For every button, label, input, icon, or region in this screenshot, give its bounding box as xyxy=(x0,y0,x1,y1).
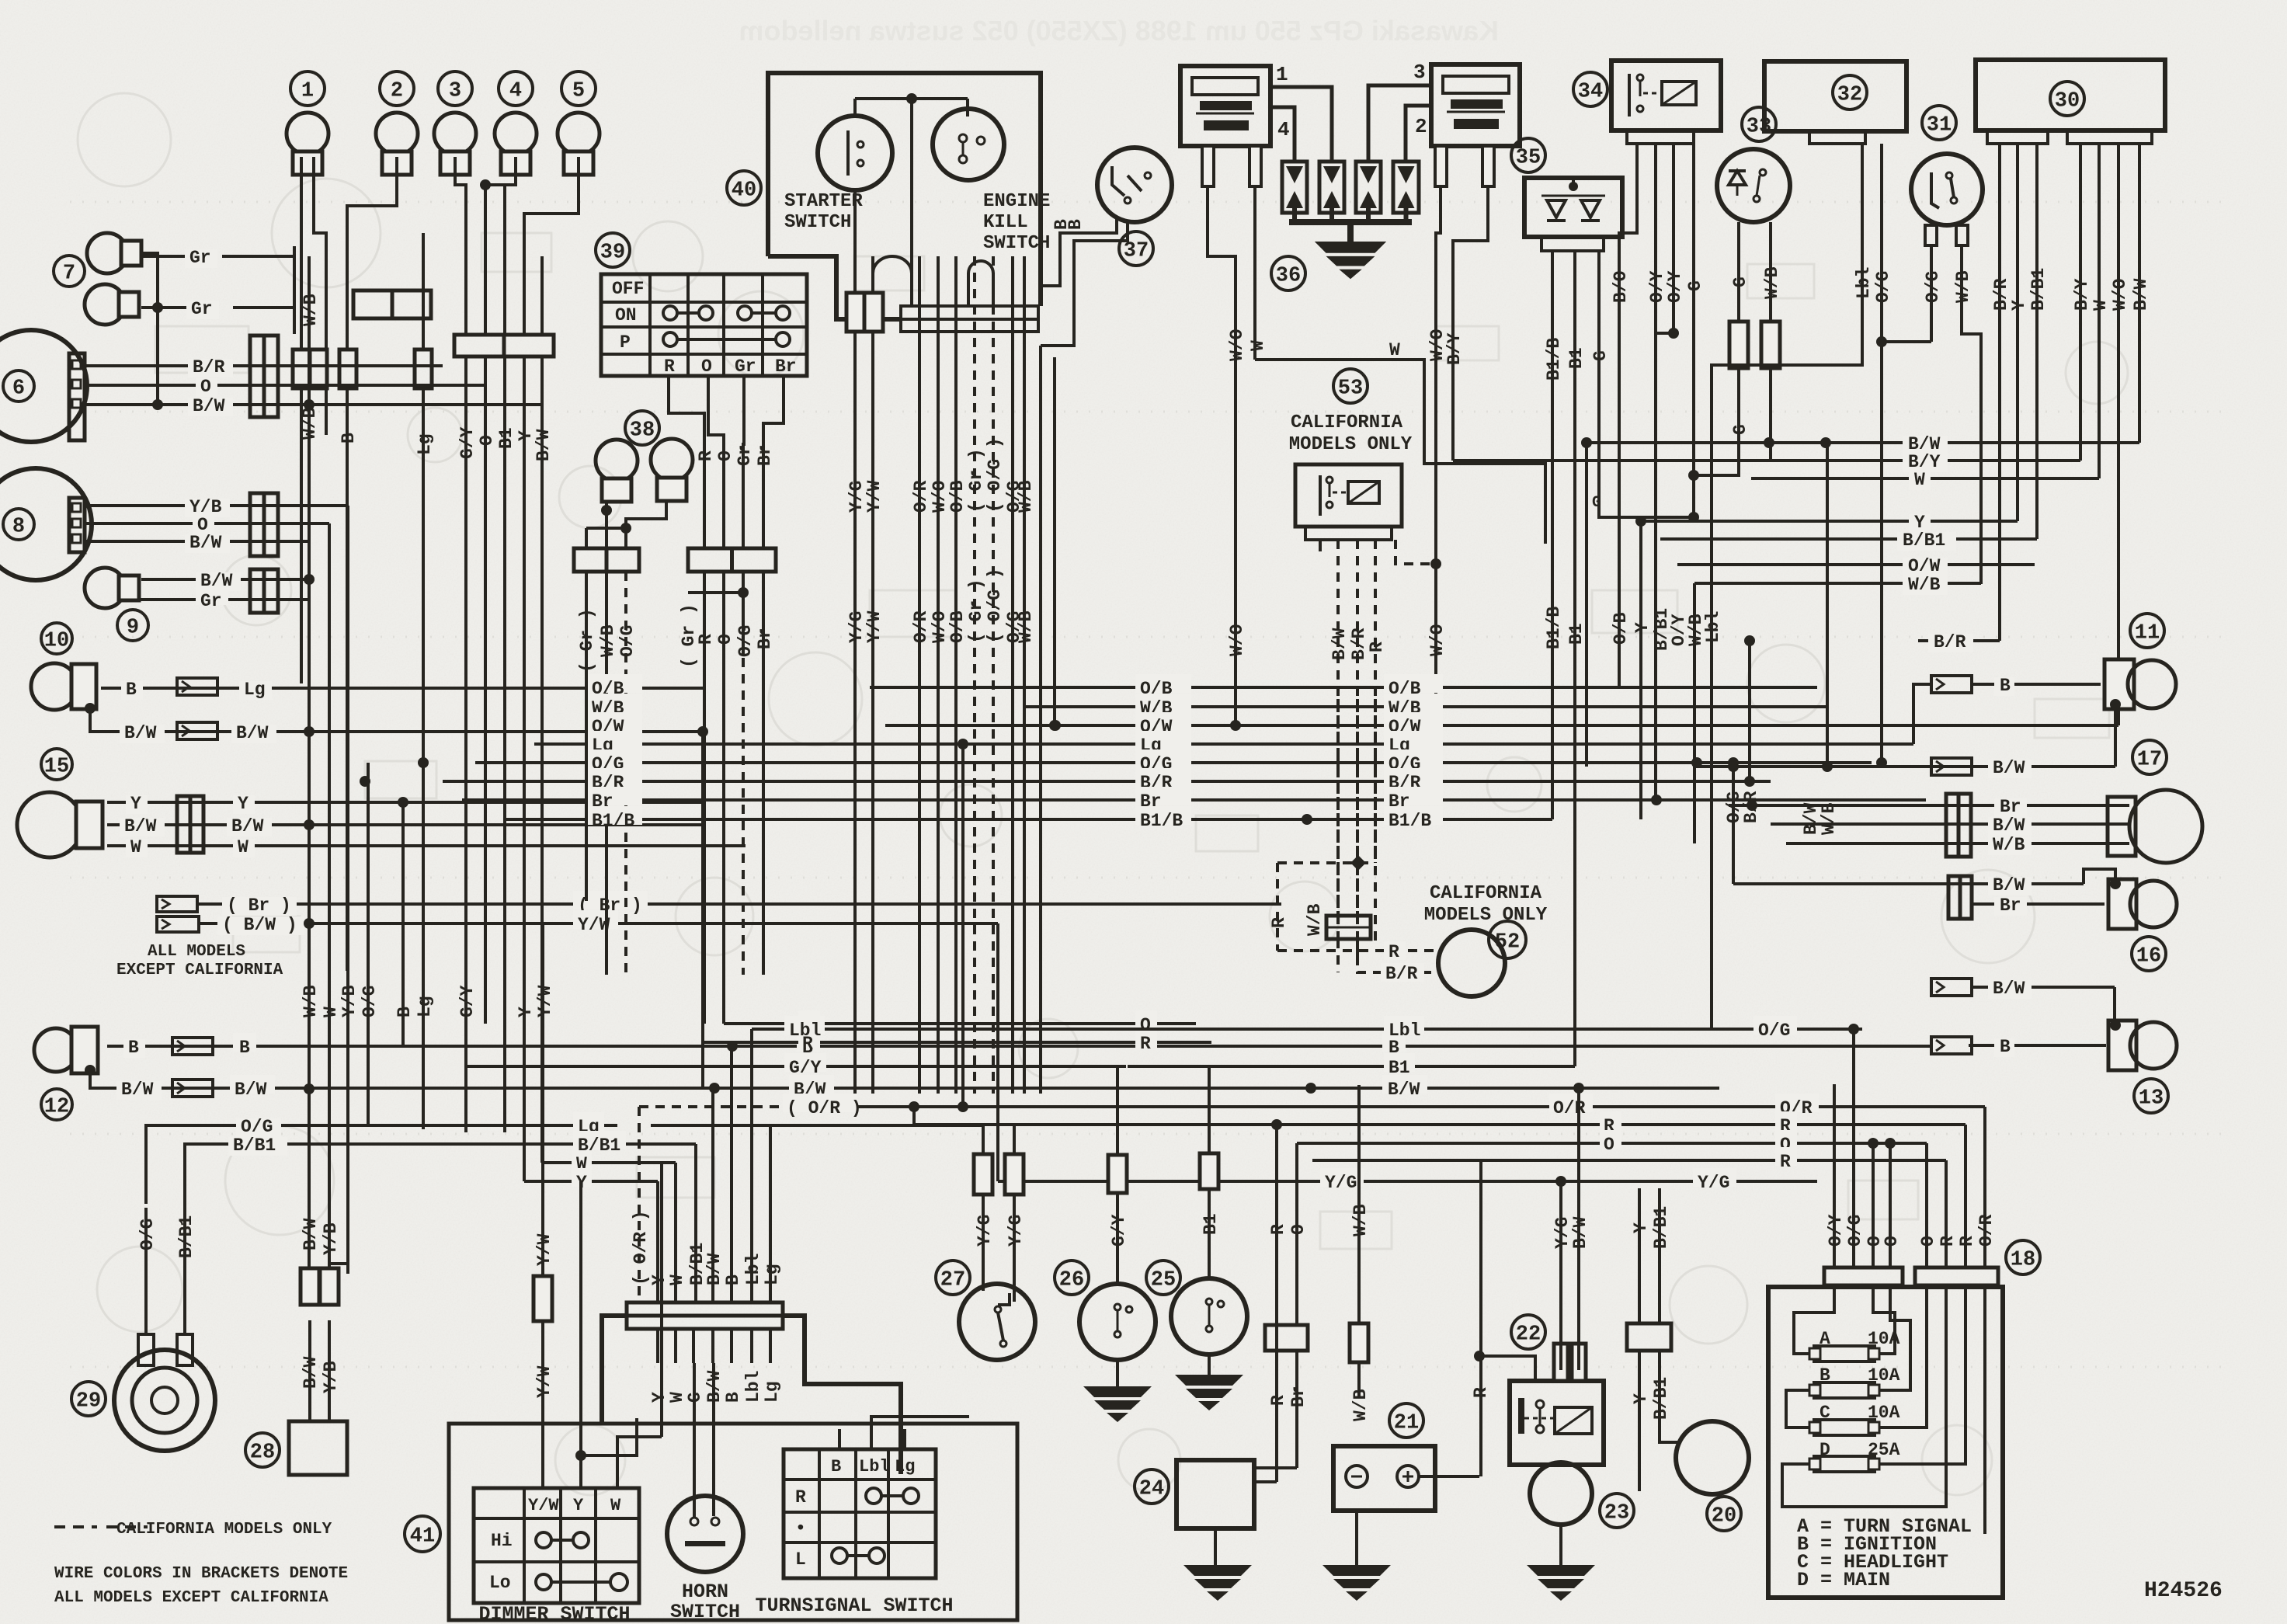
svg-text:Y: Y xyxy=(1631,1393,1651,1404)
connector 16 xyxy=(1948,876,1972,919)
connector kill bundle xyxy=(901,306,1038,319)
box 28 xyxy=(289,1421,347,1475)
wire hbd Y xyxy=(656,1329,659,1363)
wire row B/B1 r xyxy=(1660,537,2037,541)
contact Lo xyxy=(536,1574,551,1590)
wire Y/G kill xyxy=(853,256,857,1094)
svg-text:Lg: Lg xyxy=(762,1264,782,1285)
wire 38 Gr xyxy=(585,572,588,901)
wire row R l xyxy=(704,1041,1211,1044)
svg-text:W/B: W/B xyxy=(1762,266,1782,299)
wire 33 b xyxy=(1769,222,1772,322)
svg-text:Lg: Lg xyxy=(895,1457,915,1476)
wire fb intD3 xyxy=(1983,1285,1986,1534)
svg-text:Br: Br xyxy=(2000,797,2021,817)
svg-text:O/G: O/G xyxy=(241,1117,273,1137)
wire Y/W lead xyxy=(542,1181,544,1276)
connector B 13 xyxy=(1931,1037,1972,1054)
svg-text:Br: Br xyxy=(1288,1386,1309,1407)
wire ign Gr xyxy=(743,376,744,548)
coil left plugs xyxy=(1202,146,1214,186)
svg-text:W/O: W/O xyxy=(1427,624,1448,656)
wire W/B kill xyxy=(1023,256,1026,1094)
svg-text:W/B: W/B xyxy=(1350,1389,1371,1421)
svg-text:W/B: W/B xyxy=(598,624,618,657)
svg-text:11: 11 xyxy=(2135,622,2160,645)
wire row R2 fb xyxy=(1312,1159,1946,1162)
svg-text:B1/B: B1/B xyxy=(592,811,634,831)
connector meter harness xyxy=(454,335,554,356)
table col line xyxy=(761,274,764,376)
svg-text:B/W: B/W xyxy=(1329,628,1350,660)
fuse 27b xyxy=(1005,1154,1024,1195)
box 24 xyxy=(1177,1460,1254,1528)
svg-text:Lbl: Lbl xyxy=(789,1021,821,1041)
wire plug R2 xyxy=(1453,186,1488,461)
svg-text:Y/B: Y/B xyxy=(321,1361,341,1393)
dashed legend xyxy=(54,1525,97,1528)
label circle 16 xyxy=(2132,937,2166,971)
label circle 4 xyxy=(499,71,533,106)
label B1/B busR xyxy=(1384,806,1443,825)
svg-text:32: 32 xyxy=(1837,84,1862,107)
svg-text:B: B xyxy=(339,433,359,443)
wire row B1 m xyxy=(1128,1065,1575,1068)
label circle 17 xyxy=(2132,740,2167,774)
wire O/G kill xyxy=(1011,256,1014,1094)
wire bat minus xyxy=(1355,1511,1358,1565)
wire B 13 xyxy=(1969,1044,2106,1047)
svg-text:D = MAIN: D = MAIN xyxy=(1797,1569,1890,1591)
svg-text:B/R: B/R xyxy=(1385,964,1418,984)
starter motor 23 xyxy=(1530,1462,1592,1525)
svg-text:B/R: B/R xyxy=(1934,632,1966,652)
svg-text:W: W xyxy=(238,837,249,857)
svg-text:( O/G ): ( O/G ) xyxy=(985,568,1005,643)
wire row W r xyxy=(1751,477,2099,480)
label B/W 17 xyxy=(1988,760,2032,778)
svg-text:O/R: O/R xyxy=(911,610,931,643)
svg-text:B/W: B/W xyxy=(1388,1080,1420,1100)
horn 29 xyxy=(114,1350,215,1451)
wire O row6 xyxy=(85,384,485,387)
label circle 20 xyxy=(1707,1497,1741,1531)
svg-text:B/W: B/W xyxy=(121,1080,154,1100)
wire 30 W/O xyxy=(2117,144,2120,334)
wire coil2 d3 xyxy=(1368,85,1431,162)
wire B/W 17 xyxy=(1695,765,2115,768)
svg-text:R: R xyxy=(696,450,716,461)
svg-text:MODELS ONLY: MODELS ONLY xyxy=(1424,905,1548,926)
junction v1240b xyxy=(958,1101,968,1112)
label Y r xyxy=(1909,514,1931,533)
contact ON 1 xyxy=(663,306,677,320)
svg-text:Y/W: Y/W xyxy=(535,985,555,1017)
label O l1 xyxy=(798,1010,820,1029)
svg-text:W: W xyxy=(667,1275,687,1285)
svg-text:B/W: B/W xyxy=(231,816,264,836)
svg-text:( Gr ): ( Gr ) xyxy=(966,448,986,513)
regulator 35 diodes xyxy=(1569,182,1578,191)
wire lamp1 leads xyxy=(300,157,303,349)
svg-text:O/G: O/G xyxy=(1923,271,1943,303)
label O/W busM xyxy=(1135,712,1191,731)
label circle 36 xyxy=(1271,256,1305,290)
svg-text:Y/W: Y/W xyxy=(864,610,885,643)
wire dash c1 xyxy=(1336,939,1340,972)
wire 7 stub xyxy=(140,253,158,402)
dimmer rows xyxy=(474,1517,639,1520)
svg-text:1: 1 xyxy=(1276,63,1288,86)
wire fb intA xyxy=(1794,1285,1834,1354)
lamp 7b xyxy=(85,284,139,325)
svg-text:B/W: B/W xyxy=(193,396,225,416)
svg-text:( Gr ): ( Gr ) xyxy=(966,579,986,643)
junction BWr xyxy=(1820,437,1831,448)
wire 30 B/W xyxy=(2138,144,2141,334)
oil switch 37 xyxy=(1097,148,1172,222)
wire ign R2 xyxy=(703,572,706,1024)
svg-text:B1/B: B1/B xyxy=(1544,607,1564,649)
wire 16 jog xyxy=(2084,869,2115,884)
svg-text:6: 6 xyxy=(12,377,25,401)
wire v2232 O/G xyxy=(1732,763,1735,884)
svg-text:B/B1: B/B1 xyxy=(233,1135,276,1156)
svg-text:CALIFORNIA MODELS ONLY: CALIFORNIA MODELS ONLY xyxy=(116,1521,332,1539)
junction Y15 xyxy=(398,797,408,808)
label circle 41 xyxy=(405,1516,440,1552)
label B 13 xyxy=(1994,1038,2014,1057)
svg-text:STARTER: STARTER xyxy=(784,191,863,212)
junction Rr xyxy=(1271,1119,1282,1130)
wire v448 down xyxy=(346,506,349,1264)
junction lamp3/4 xyxy=(480,179,491,190)
svg-text:R: R xyxy=(1367,642,1387,652)
dimmer cols xyxy=(523,1488,526,1603)
connector fuses 28 xyxy=(301,1268,319,1305)
svg-text:39: 39 xyxy=(600,242,625,265)
svg-text:7: 7 xyxy=(63,263,75,286)
svg-text:B/W: B/W xyxy=(236,723,269,743)
label W/B 17 xyxy=(1988,836,2032,855)
label circle 35 xyxy=(1511,138,1545,172)
wire O/G row xyxy=(146,1125,617,1204)
label O r xyxy=(1600,1130,1621,1149)
svg-text:29: 29 xyxy=(76,1390,101,1414)
label (B/W) a xyxy=(217,916,304,935)
junction OR xyxy=(909,1101,919,1112)
svg-text:W/O: W/O xyxy=(2110,279,2130,311)
svg-text:4: 4 xyxy=(509,80,522,103)
wire 34 b xyxy=(1654,144,1657,333)
svg-text:B/W: B/W xyxy=(124,816,157,836)
wire plug L2 xyxy=(1253,186,1256,360)
label O/B busR xyxy=(1384,674,1443,693)
label B 11 xyxy=(1994,677,2014,696)
lamp sw 26 xyxy=(1079,1284,1156,1360)
relay 22 pips xyxy=(1554,1344,1568,1381)
label B/W 8 xyxy=(185,534,230,553)
junction Or2 xyxy=(1885,1138,1896,1149)
wire fb OR xyxy=(1983,1107,1986,1268)
svg-text:Br: Br xyxy=(775,356,797,377)
fuse 25 xyxy=(1200,1153,1218,1189)
wire lamp2 down xyxy=(346,388,349,971)
junction WO dash xyxy=(1430,558,1441,569)
battery plus xyxy=(1397,1466,1419,1487)
label circle 39 xyxy=(596,233,630,267)
label Lbl 1 xyxy=(784,1016,825,1035)
wire 26 a2 xyxy=(1116,1066,1119,1155)
wire loop2 xyxy=(968,261,993,306)
wire hb B/W xyxy=(711,1088,714,1302)
svg-text:Y/G: Y/G xyxy=(1006,1215,1026,1247)
svg-text:20: 20 xyxy=(1712,1505,1736,1528)
wire 23 gnd xyxy=(1559,1525,1562,1565)
wire 28 leads xyxy=(308,1320,311,1421)
svg-text:Lg: Lg xyxy=(244,680,266,700)
relay 34 tab xyxy=(1627,130,1694,144)
wire 53 d1 xyxy=(1319,540,1322,551)
label W b xyxy=(572,1149,592,1168)
label circle 13 xyxy=(2134,1079,2168,1113)
relay 34 inner xyxy=(1628,74,1631,116)
fuse 27a xyxy=(974,1154,992,1195)
wire 27 b xyxy=(1013,1195,1016,1302)
wire v625 down xyxy=(484,356,487,1024)
wire B/B1 row xyxy=(185,1144,617,1208)
label B/W 10a xyxy=(120,725,165,743)
svg-text:O: O xyxy=(200,377,211,397)
label Lg b xyxy=(573,1112,604,1131)
wire BB1 20 xyxy=(1658,1188,1661,1323)
wire O row8 xyxy=(85,522,329,525)
wire bus O/B xyxy=(870,686,1817,689)
wire 37 down xyxy=(1039,346,1042,1094)
svg-text:O: O xyxy=(1882,1236,1902,1247)
label (Br) b xyxy=(573,891,648,909)
wire Y row15 xyxy=(107,801,703,804)
svg-text:O: O xyxy=(715,634,735,645)
label Lg busR xyxy=(1384,731,1443,749)
svg-text:12: 12 xyxy=(44,1096,69,1119)
connector B/W 17 xyxy=(1931,758,1972,775)
svg-text:Lbl: Lbl xyxy=(859,1457,890,1476)
lamp 38b xyxy=(651,439,693,501)
svg-text:B: B xyxy=(1065,219,1086,230)
label W 15a xyxy=(126,839,148,857)
wire kill top xyxy=(855,97,968,100)
label O/W busR xyxy=(1384,712,1443,731)
wire ts B xyxy=(838,1429,841,1449)
label B/W 9 xyxy=(196,572,241,591)
wire Y/B row8 xyxy=(85,504,348,507)
wire dim W xyxy=(617,1437,662,1488)
lamp bulb 1 xyxy=(287,113,328,175)
label O/W r xyxy=(1903,558,1948,576)
label Y 15b xyxy=(233,795,255,814)
svg-text:( Br ): ( Br ) xyxy=(227,895,291,916)
wire lamp5 lead xyxy=(524,157,579,335)
svg-text:SWITCH: SWITCH xyxy=(670,1601,740,1623)
wire plug R1 xyxy=(1436,186,1441,723)
label B/B1 r xyxy=(1897,532,1956,551)
wire br xyxy=(197,902,1281,906)
svg-text:G: G xyxy=(1730,424,1750,435)
starter switch symbol xyxy=(818,116,892,190)
svg-text:B/B1: B/B1 xyxy=(2028,268,2049,311)
junction v2113 xyxy=(1635,516,1646,527)
label Y/B 8 xyxy=(185,499,230,517)
svg-text:( O/R ): ( O/R ) xyxy=(631,1210,651,1285)
junction v2253a xyxy=(1744,635,1755,646)
label O/G lblrow xyxy=(1753,1016,1797,1035)
label circle 52 xyxy=(1489,921,1526,958)
svg-text:R: R xyxy=(1140,1034,1151,1054)
label R2 fb xyxy=(1775,1147,1797,1166)
wire 11 to 17 xyxy=(2114,704,2117,767)
switch 31 pins xyxy=(1925,225,1937,245)
label circle 32 xyxy=(1833,75,1867,110)
wire lamp3 lead xyxy=(455,157,466,335)
wire v2253 B/R xyxy=(1748,641,1751,781)
junction 37 OW xyxy=(1049,720,1060,731)
ground 25 xyxy=(1175,1375,1243,1410)
svg-text:MODELS ONLY: MODELS ONLY xyxy=(1289,434,1413,455)
svg-text:R: R xyxy=(1269,917,1289,928)
label Y/W bw xyxy=(573,910,618,929)
wire B/W row9 xyxy=(141,578,309,581)
svg-text:G: G xyxy=(1730,276,1750,287)
fuse A xyxy=(1814,1346,1875,1361)
wire Y/B jog xyxy=(329,1264,348,1274)
svg-text:9: 9 xyxy=(127,617,139,640)
svg-text:B1: B1 xyxy=(1389,1058,1410,1078)
wire 30 Y xyxy=(2016,144,2019,334)
svg-text:( B/W ): ( B/W ) xyxy=(222,915,297,935)
svg-text:B/B1: B/B1 xyxy=(1903,530,1945,551)
label Y/G r2 xyxy=(1693,1168,1736,1187)
wire hb thickL xyxy=(602,1316,627,1424)
svg-text:38: 38 xyxy=(630,419,655,443)
wire fb O1 xyxy=(1872,1142,1875,1268)
connector 6 inline xyxy=(250,336,278,417)
svg-text:Y: Y xyxy=(2009,300,2029,311)
wire B row12 xyxy=(107,1045,1931,1048)
wire v2353 B/W xyxy=(1826,443,1829,767)
svg-text:ALL MODELS: ALL MODELS xyxy=(148,943,245,961)
label circle 1 xyxy=(290,71,325,106)
wire B/W 13 xyxy=(1971,986,2115,989)
connector B10 xyxy=(177,678,217,695)
lamp 7a xyxy=(87,233,141,273)
resistor Y/W xyxy=(534,1276,552,1321)
svg-text:Lbl: Lbl xyxy=(743,1254,763,1285)
svg-text:W/O: W/O xyxy=(1227,624,1247,656)
table row line xyxy=(601,353,807,356)
junction bw17b xyxy=(1822,761,1833,772)
fuse C xyxy=(1814,1420,1875,1435)
table row line xyxy=(601,301,807,304)
wire Gr 7a xyxy=(141,255,185,258)
svg-text:Hi: Hi xyxy=(491,1531,513,1551)
wire 30 BY xyxy=(2079,334,2082,461)
wire dash R2 xyxy=(1374,699,1377,863)
connector ign xyxy=(688,548,776,572)
wire 53 d3 xyxy=(1374,540,1377,944)
wire Y 20 xyxy=(1638,1188,1641,1323)
svg-text:O: O xyxy=(1918,1236,1938,1247)
label O/W busL xyxy=(588,712,642,731)
junction kill top xyxy=(906,93,917,104)
svg-text:28: 28 xyxy=(250,1441,275,1465)
connector B 11 xyxy=(1931,676,1972,693)
label O/B busM xyxy=(1135,674,1191,693)
fusebox tabs xyxy=(1824,1268,1903,1285)
svg-text:O: O xyxy=(1604,1135,1614,1155)
wire v424 down xyxy=(328,541,331,1268)
svg-text:27: 27 xyxy=(940,1269,965,1292)
diode assembly 36 xyxy=(1282,162,1307,213)
junction BW15 xyxy=(304,819,315,830)
handlebar switch housing xyxy=(449,1424,1017,1620)
svg-text:2: 2 xyxy=(1415,115,1427,138)
svg-text:B/Y: B/Y xyxy=(2072,278,2092,311)
label circle 22 xyxy=(1511,1315,1545,1349)
wire v698 down xyxy=(540,356,544,1163)
label (O/R) xyxy=(783,1094,857,1112)
wire ign O xyxy=(708,376,724,548)
wire 37 B2 xyxy=(1041,221,1128,346)
wire v545 down xyxy=(422,388,425,1129)
wire bus O/W xyxy=(885,724,2118,727)
label R fb xyxy=(1775,1111,1797,1130)
label B/W 6 xyxy=(188,398,233,416)
junction 22YG xyxy=(1555,1176,1566,1187)
junction busBR xyxy=(360,776,370,787)
svg-text:W/B: W/B xyxy=(301,294,321,326)
wire hb Lg xyxy=(769,1125,772,1302)
svg-text:Lg: Lg xyxy=(762,1381,782,1403)
svg-text:WIRE COLORS IN BRACKETS DENOTE: WIRE COLORS IN BRACKETS DENOTE xyxy=(54,1565,348,1583)
label B/W 15b xyxy=(227,818,272,836)
starter kill switch box xyxy=(768,73,1041,319)
svg-text:5: 5 xyxy=(572,80,585,103)
wire Gr 7b xyxy=(141,306,186,309)
wire hbd B/W xyxy=(711,1329,714,1363)
lamp 17 xyxy=(2108,790,2202,863)
svg-text:Gr: Gr xyxy=(200,591,222,611)
svg-text:W/B: W/B xyxy=(1016,610,1036,643)
fuse pair starter xyxy=(846,293,865,332)
junction BW d xyxy=(1573,1083,1584,1094)
label Y/G r xyxy=(1320,1168,1364,1187)
lamp bulb 2 xyxy=(376,113,418,175)
junction 11 xyxy=(2110,699,2121,710)
label Lbl 2 xyxy=(1384,1016,1424,1035)
junction G2 xyxy=(1688,512,1699,523)
wire fb O2 xyxy=(1889,1142,1892,1268)
wire row W b xyxy=(542,1161,676,1164)
wire hb ( O/R ) xyxy=(638,1107,641,1302)
svg-text:B/W: B/W xyxy=(1993,815,2025,836)
ground 24 xyxy=(1183,1565,1252,1601)
svg-text:W/B: W/B xyxy=(1993,835,2025,855)
label B1 m xyxy=(1384,1053,1415,1072)
label circle 24 xyxy=(1135,1469,1169,1504)
svg-text:W: W xyxy=(1389,340,1400,360)
svg-text:B: B xyxy=(723,1275,743,1285)
